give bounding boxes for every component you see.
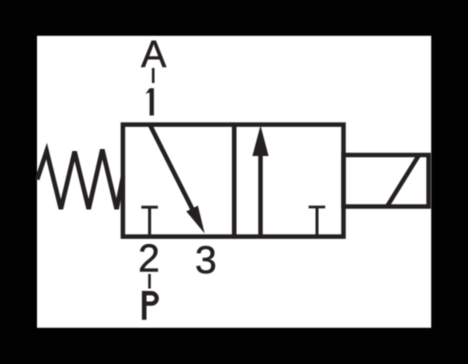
arrowhead of right-position flow arrow	[252, 125, 268, 156]
arrowhead of flow path 1-to-3	[186, 206, 204, 234]
solenoid actuator box	[344, 155, 429, 207]
svg-text:2: 2	[138, 238, 160, 281]
leader dash between A and 1	[152, 68, 155, 83]
solenoid diagonal stroke	[387, 155, 419, 207]
flow path line 1-to-3 (left position)	[150, 125, 194, 212]
port label P	[144, 291, 156, 320]
leader dash between 2 and P	[148, 274, 151, 289]
port label 1	[146, 88, 154, 115]
svg-text:3: 3	[195, 239, 217, 282]
position divider line	[232, 123, 237, 239]
blocked port T (left position, port 2)	[148, 207, 151, 236]
flow arrow shaft (right position)	[258, 152, 263, 237]
valve body outline (two-position envelope)	[123, 125, 344, 237]
svg-text:A: A	[141, 34, 167, 76]
return spring	[37, 150, 123, 210]
blocked port T (right position)	[316, 207, 319, 237]
